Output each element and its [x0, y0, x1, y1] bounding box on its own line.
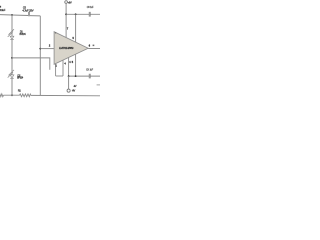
capacitor C8 plates — [89, 12, 90, 17]
svg-text:5: 5 — [72, 61, 74, 64]
svg-text:LM741H/883: LM741H/883 — [59, 46, 74, 50]
capacitor C5 plates — [28, 12, 29, 16]
wire V- to terminal — [68, 76, 70, 89]
svg-text:+9V: +9V — [68, 1, 72, 4]
svg-text:5: 5 — [73, 37, 75, 40]
resistor R1 zigzag — [20, 94, 31, 97]
wire left branch middle — [11, 40, 13, 75]
capacitor C9 plates — [89, 74, 90, 79]
wire left branch bottom — [11, 79, 13, 96]
node junction dot pin2 tap — [39, 48, 41, 50]
svg-text:1uF: 1uF — [90, 69, 94, 72]
photodiode D2 — [8, 70, 14, 78]
wire pin 5 drop — [75, 14, 77, 42]
node junction dot pin5 rail — [75, 13, 77, 15]
node junction dot V+ rail — [65, 13, 67, 15]
wire to inverting input pin 2 — [40, 48, 54, 50]
supply terminal -9V circle — [67, 89, 70, 92]
pin 1 stub — [55, 64, 57, 76]
node junction dot bottom-left — [11, 94, 13, 96]
node junction dot V- bus — [68, 75, 70, 77]
clipped faint text at right edge — [97, 84, 100, 85]
node junction dot top-left — [11, 14, 13, 16]
photodiode D1 — [8, 29, 14, 39]
svg-text:4: 4 — [64, 63, 66, 66]
op-amp U1 triangle — [54, 32, 88, 65]
bottom rail wire — [4, 94, 101, 97]
wire left branch upper — [11, 15, 13, 36]
wire mid horizontal — [12, 58, 50, 70]
svg-text:-9V: -9V — [72, 90, 76, 93]
svg-text:2: 2 — [49, 45, 51, 48]
top-right rail wire — [66, 13, 100, 15]
svg-text:-9V: -9V — [73, 85, 77, 88]
bottom bus wire — [69, 75, 100, 77]
pin OS stub — [75, 54, 77, 76]
wire V+ pin 7 — [65, 3, 67, 37]
pin V- stub — [68, 58, 70, 77]
offset strap wire — [56, 75, 63, 77]
svg-text:BP104: BP104 — [20, 33, 27, 36]
output wire pin 6 — [88, 48, 100, 50]
node junction dot OS bus — [75, 75, 77, 77]
svg-text:1: 1 — [56, 65, 58, 68]
svg-text:1uF: 1uF — [90, 6, 94, 9]
supply terminal +9V circle — [65, 1, 68, 4]
svg-text:R1: R1 — [18, 90, 22, 93]
top-left rail wire — [0, 15, 40, 16]
svg-text:0.1uF: 0.1uF — [0, 8, 6, 12]
svg-text:BP104: BP104 — [17, 77, 24, 80]
svg-text:6: 6 — [89, 44, 91, 47]
svg-text:4.7uF 25V: 4.7uF 25V — [22, 8, 33, 12]
node junction dot left mid — [11, 57, 13, 59]
svg-text:7: 7 — [67, 27, 69, 30]
tiny mark inside triangle top-left — [55, 32, 56, 33]
resistor (clipped zigzag at left edge) — [0, 94, 4, 97]
vertical wire x=40.3 — [39, 16, 41, 96]
capacitor C1 ref label (clipped at left edge) — [0, 6, 1, 8]
pin 4 stub — [62, 60, 64, 76]
